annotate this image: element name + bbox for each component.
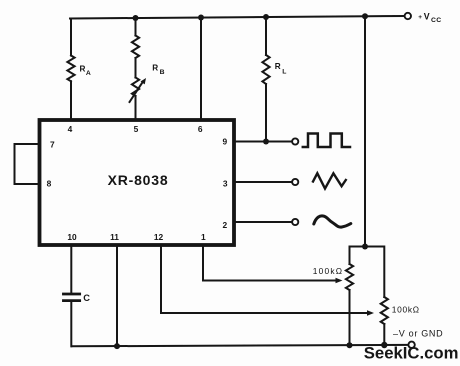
arrow RB wiper	[130, 78, 147, 102]
wire pin 6 branch	[200, 18, 202, 119]
label RB	[152, 63, 164, 76]
label +Vcc	[418, 11, 441, 24]
square wave symbol	[303, 134, 350, 148]
wire pin 1 to left pot wiper	[203, 247, 343, 283]
svg-text:R: R	[275, 62, 281, 71]
junction right rail / pot bar	[362, 244, 368, 250]
resistor RL	[262, 55, 269, 84]
op-amp U1 XR-8038 box	[40, 120, 235, 245]
wire pins 7-8 loop	[15, 144, 40, 184]
junction top rail / RB	[133, 15, 139, 21]
svg-text:CC: CC	[431, 17, 442, 24]
resistor RB variable section	[132, 78, 139, 97]
capacitor C	[63, 294, 79, 301]
svg-text:+: +	[418, 14, 422, 21]
svg-text:XR-8038: XR-8038	[108, 172, 169, 188]
svg-text:–V or GND: –V or GND	[393, 329, 443, 339]
svg-text:A: A	[86, 70, 91, 77]
triangle wave symbol	[313, 173, 346, 188]
svg-text:R: R	[80, 64, 86, 73]
wire pin 3	[236, 181, 293, 183]
junction top rail / right rail	[362, 13, 368, 19]
svg-text:3: 3	[223, 178, 228, 188]
svg-text:R: R	[152, 63, 158, 72]
junction top rail / pin 6	[198, 15, 204, 21]
junction bottom / right pot	[381, 342, 387, 348]
sine wave symbol	[314, 216, 351, 227]
terminal -V	[408, 342, 414, 348]
svg-text:7: 7	[50, 139, 55, 149]
svg-text:2: 2	[222, 220, 227, 230]
svg-text:C: C	[83, 293, 90, 303]
svg-text:9: 9	[222, 136, 227, 146]
svg-text:5: 5	[134, 124, 139, 134]
svg-text:100kΩ: 100kΩ	[392, 304, 420, 314]
resistor RA	[67, 56, 74, 82]
svg-text:100kΩ: 100kΩ	[313, 266, 343, 276]
svg-text:10: 10	[67, 232, 77, 242]
wire pin 4 branch	[70, 19, 72, 119]
svg-text:8: 8	[47, 178, 52, 188]
svg-text:4: 4	[68, 124, 73, 134]
wire pin 11	[116, 247, 118, 346]
wire right rail	[364, 16, 366, 246]
label RL	[275, 62, 287, 76]
wire bottom rail	[72, 345, 409, 346]
svg-text:B: B	[160, 69, 165, 76]
svg-text:1: 1	[201, 232, 206, 242]
terminal +Vcc	[405, 13, 411, 19]
wire pin 2	[236, 221, 293, 223]
junction top rail / RL	[263, 14, 269, 20]
terminal pin 2	[292, 219, 298, 225]
wire pin 5 branch	[135, 18, 137, 118]
wire pin 12 to right pot wiper	[161, 247, 374, 316]
junction bottom / pin 11	[114, 343, 120, 349]
junction pin 9 / RL	[263, 139, 269, 145]
wire pin 10 branch	[70, 247, 72, 346]
wire pot top bar	[350, 247, 385, 298]
wire pin 9	[236, 141, 293, 143]
svg-text:L: L	[282, 69, 286, 76]
svg-text:V: V	[424, 11, 430, 21]
terminal pin 9	[292, 138, 298, 144]
svg-text:12: 12	[154, 232, 164, 242]
label RA	[80, 64, 91, 77]
resistor RB upper section	[132, 36, 139, 59]
potentiometer 100k right	[381, 297, 388, 345]
potentiometer 100k left	[346, 264, 353, 345]
svg-text:6: 6	[198, 124, 203, 134]
wire +Vcc top rail	[70, 16, 405, 19]
terminal pin 3	[292, 179, 298, 185]
svg-text:11: 11	[110, 232, 119, 242]
wire RL branch	[265, 17, 267, 142]
junction bottom / left pot	[347, 342, 353, 348]
